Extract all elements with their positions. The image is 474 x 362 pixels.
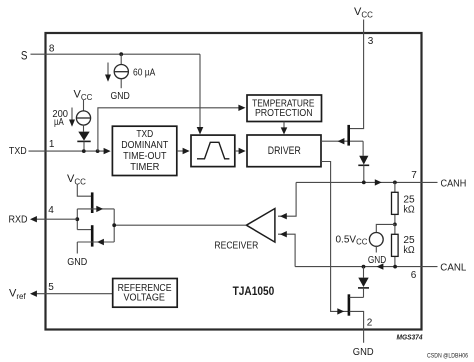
svg-text:DOMINANT: DOMINANT: [121, 140, 168, 151]
transistor Q4 NMOS bar: [91, 225, 94, 246]
arrow into timer box: [104, 148, 111, 154]
svg-text:TXD: TXD: [9, 145, 27, 157]
svg-text:TXD: TXD: [136, 129, 153, 140]
block reference voltage: [113, 279, 178, 308]
svg-text:CANL: CANL: [440, 262, 466, 274]
node CANL/R2 junction: [393, 265, 397, 269]
wire Q4 drain: [77, 229, 91, 231]
resistor R2 25k: [392, 224, 399, 266]
wire driver to NMOS gate: [321, 162, 348, 312]
wire S to slope block vertical: [199, 54, 201, 128]
wire RXD line: [34, 218, 77, 220]
svg-text:µA: µA: [54, 117, 64, 128]
wire TXD line: [29, 150, 105, 152]
wire NMOS drain: [350, 296, 364, 298]
svg-text:GND: GND: [368, 255, 386, 266]
wire source to GND: [375, 246, 377, 252]
node RXD junction: [75, 217, 79, 221]
node TXD/temp-wire junction: [96, 149, 100, 153]
wire CANH line: [296, 181, 437, 183]
svg-text:1: 1: [49, 139, 55, 150]
node TXD/diode junction: [82, 149, 86, 153]
arrow on CANH (points right): [375, 179, 382, 185]
wire temp protection to driver: [283, 122, 285, 129]
wire NMOS source to GND pin 2: [350, 311, 364, 342]
arrow NMOS gate (points right): [337, 308, 344, 314]
wire Q3 drain/gate line: [77, 208, 114, 210]
block receiver (comparator triangle): [214, 209, 275, 252]
svg-text:S: S: [21, 50, 28, 62]
wire CANH to receiver input: [278, 182, 296, 216]
arrow current direction (200uA): [69, 108, 75, 127]
wire slope control to driver: [235, 150, 240, 152]
node S/60uA junction: [119, 52, 123, 56]
svg-text:MGS374: MGS374: [397, 332, 424, 341]
svg-text:2: 2: [367, 318, 373, 329]
wire Q4 source to GND: [76, 242, 78, 254]
arrow PMOS gate (points left): [338, 138, 345, 144]
svg-text:VOLTAGE: VOLTAGE: [124, 293, 166, 304]
transistor Q1 PMOS bar: [347, 125, 350, 146]
voltage source 0.5VCC: [369, 233, 383, 247]
svg-text:RECEIVER: RECEIVER: [214, 241, 258, 252]
svg-text:TIMER: TIMER: [130, 162, 159, 173]
wire Vref line: [34, 293, 113, 295]
arrow current direction (60uA): [105, 63, 111, 82]
wire VCC pin 3 to PMOS source: [350, 20, 364, 129]
node R1/R2 midpoint junction: [393, 223, 397, 227]
wire PMOS drain to diode: [362, 141, 364, 156]
svg-text:3: 3: [368, 36, 374, 47]
block slope control (waveform): [191, 135, 235, 167]
svg-text:60 µA: 60 µA: [133, 68, 156, 79]
arrow Vref output (points left): [30, 291, 37, 297]
arrow into slope control: [183, 148, 190, 154]
diode D1 (CANH): [358, 156, 369, 183]
wire receiver output to RXD stage: [114, 224, 246, 226]
svg-text:kΩ: kΩ: [403, 204, 414, 215]
svg-text:TIME-OUT: TIME-OUT: [123, 151, 166, 162]
svg-text:GND: GND: [353, 346, 374, 358]
wire Q4 gate/source line: [77, 241, 114, 243]
svg-text:RXD: RXD: [9, 214, 28, 226]
arrow on CANL (points left): [377, 263, 384, 269]
outer chip boundary box: [46, 33, 422, 330]
diode D3 (TXD pull-up): [77, 132, 90, 152]
svg-text:TJA1050: TJA1050: [233, 284, 275, 298]
arrow receiver input top (points left): [280, 213, 287, 219]
arrow into temperature protection: [238, 105, 245, 111]
block temperature protection: [247, 95, 322, 122]
wire VCC to PMOS Q3 source: [77, 184, 91, 196]
svg-text:DRIVER: DRIVER: [268, 145, 301, 157]
arrow RXD output (points left): [30, 216, 37, 222]
svg-text:8: 8: [49, 43, 55, 54]
wire CANL line: [295, 266, 437, 268]
svg-text:GND: GND: [67, 257, 87, 268]
wire driver to PMOS gate: [321, 140, 363, 142]
arrow into slope block top: [197, 127, 204, 135]
svg-text:6: 6: [411, 270, 417, 281]
wire TXD node to temperature protection: [98, 108, 239, 151]
svg-text:7: 7: [411, 170, 417, 181]
node CANH/R1 junction: [393, 181, 397, 185]
arrow Q3 gate (points right): [96, 206, 103, 212]
transistor Q3 PMOS bar: [91, 192, 94, 213]
block driver: [247, 135, 321, 167]
wire midpoint to 0.5VCC source: [376, 224, 395, 232]
current source I2 200uA: [76, 100, 90, 132]
svg-text:PROTECTION: PROTECTION: [255, 108, 313, 119]
node receiver/gate junction: [112, 223, 116, 227]
wire timer to slope control: [177, 150, 184, 152]
wire S line: [31, 53, 201, 55]
node CANH/diode junction: [362, 181, 366, 185]
current source I1 60uA: [114, 54, 128, 88]
wire gates vertical (receiver to Q3/Q4): [113, 209, 115, 242]
svg-text:5: 5: [48, 282, 54, 293]
block TXD dominant time-out timer: [112, 126, 176, 175]
arrow receiver input bottom (points left): [280, 231, 287, 237]
arrow Q4 gate (points left): [97, 239, 104, 245]
transistor Q2 NMOS bar: [348, 294, 351, 315]
svg-text:CANH: CANH: [441, 178, 467, 190]
svg-text:4: 4: [48, 205, 54, 216]
svg-text:CSDN @LDBH06: CSDN @LDBH06: [427, 354, 469, 360]
svg-text:GND: GND: [111, 91, 130, 102]
wire CANL to receiver input: [278, 234, 295, 266]
svg-text:kΩ: kΩ: [403, 245, 414, 256]
diode D2 (CANL): [358, 267, 369, 298]
arrow into driver: [239, 148, 246, 154]
arrow into driver top: [281, 127, 288, 134]
wire RXD output node vertical: [76, 209, 78, 230]
resistor R1 25k: [392, 182, 399, 224]
node CANL/diode junction: [362, 265, 366, 269]
